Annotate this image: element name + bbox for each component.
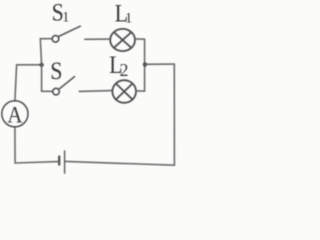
wire L2 to right riser xyxy=(136,90,144,92)
node J2 junction dot right xyxy=(143,62,147,66)
wire bottom right (corner to battery) xyxy=(65,161,174,165)
ammeter A1 letter xyxy=(7,101,22,127)
lamp L2 xyxy=(112,80,136,103)
switch S1 blade xyxy=(58,26,80,36)
switch S1 fixed terminal wire xyxy=(85,38,110,40)
wire branch-2 riser (J1 down to switch S) xyxy=(42,65,53,92)
label S xyxy=(50,58,62,86)
ammeter A1 xyxy=(2,101,28,127)
switch S blade xyxy=(59,77,75,90)
wire top-left horizontal (corner to node J1) xyxy=(17,64,42,66)
switch S pivot contact xyxy=(53,88,60,95)
svg-text:1: 1 xyxy=(125,11,132,27)
wire left vertical upper (ammeter to top-left corner) xyxy=(15,65,17,101)
wire branch-1 riser (J1 up to switch S1) xyxy=(40,39,52,65)
svg-text:S: S xyxy=(50,58,62,86)
switch S1 pivot contact xyxy=(52,36,59,43)
wire bottom left (battery to corner) xyxy=(15,162,58,163)
wire right riser (between branches) xyxy=(144,39,146,91)
svg-text:2: 2 xyxy=(120,60,129,80)
label L2 : L xyxy=(109,52,122,80)
svg-text:1: 1 xyxy=(62,9,69,25)
lamp L1 xyxy=(110,29,135,51)
battery BT1 short plate xyxy=(58,157,60,165)
node J1 junction dot left xyxy=(39,63,43,67)
label S1 : S xyxy=(52,0,64,27)
label L1 : L xyxy=(115,0,128,28)
wire J2 to top-right corner xyxy=(145,63,174,65)
switch S fixed terminal wire xyxy=(79,90,112,93)
battery BT1 long plate xyxy=(64,151,66,173)
wire left vertical lower (ammeter to bottom-left corner) xyxy=(14,127,16,163)
svg-text:A: A xyxy=(7,101,22,127)
wire right vertical xyxy=(173,64,175,165)
wire L1 to right riser xyxy=(136,38,145,40)
